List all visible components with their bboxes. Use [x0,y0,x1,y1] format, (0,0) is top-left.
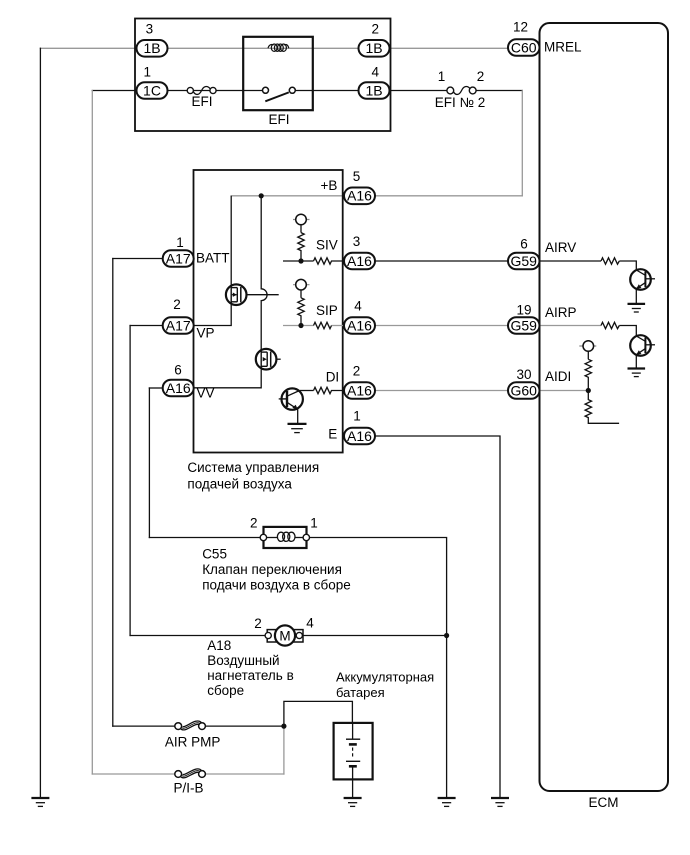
wire C55 row from VV column to valve [149,537,260,539]
wire gray vertical 1C-column down to P/I-B row [91,91,93,775]
svg-text:A17: A17 [166,250,191,266]
resistor DI series [314,387,344,393]
wire battery bottom to ground [352,779,354,798]
svg-text:2: 2 [254,616,262,631]
svg-text:2: 2 [372,22,380,37]
wire Q1 source down to VP row [194,305,232,326]
connector A16 pin 2 DI [344,364,375,399]
wire left vertical from row A down to ground [39,48,41,798]
wire AIRP resistor to transistor Q5 [619,326,636,337]
svg-text:AIDI: AIDI [545,369,571,384]
wire vertical gray from EFI No2 down to +B row [521,91,523,196]
svg-text:1B: 1B [365,82,382,98]
valve C55 box [250,516,318,549]
svg-text:MREL: MREL [544,40,582,55]
wire AIRP inside ECM gray [540,325,602,327]
node SIV junction dot [298,258,303,263]
connector 1B pin 2 [359,22,390,57]
svg-text:2: 2 [173,297,181,312]
svg-text:A16: A16 [166,380,191,396]
relay switch blade [265,92,289,101]
svg-text:DI: DI [326,369,340,384]
wire C55 to right corner down to ground [307,538,447,799]
svg-text:M: M [279,628,290,643]
resistor AIDI lower [585,391,619,424]
svg-text:Клапан переключения: Клапан переключения [202,562,342,577]
resistor SIV series [314,258,344,264]
wire vertical to MOSFET Q2 with hop over Q1 gate [261,196,267,349]
connector A17 pin 2 VP [163,297,194,334]
battery top lead [352,723,354,739]
svg-text:A16: A16 [347,188,372,204]
motor A18 air pump [254,616,314,646]
svg-text:6: 6 [174,363,182,378]
wire VV row into oval [149,387,163,389]
wire +B row gray from A16 pin5 to corner [231,195,522,197]
LONGWIRES [40,48,522,798]
wire Q3 emitter to ground [297,409,299,424]
wire vertical junction down to P/I-B row gray [283,726,285,774]
svg-text:5: 5 [353,169,361,184]
battery cell 2 long plate [346,760,360,762]
connector A17 pin 1 BATT [163,235,194,267]
svg-text:EFI: EFI [191,94,212,109]
svg-text:VV: VV [197,385,215,400]
wire SIP between resistor and oval gray [332,325,344,327]
resistor AIDI upper [585,359,591,390]
svg-text:C60: C60 [511,39,537,55]
transistor Q3 [279,388,303,409]
pullup symbol SIV [293,214,310,232]
connector G59 pin 19 AIRP [508,303,540,334]
fuse P/I-B fusible link [173,771,205,796]
svg-text:Воздушный: Воздушный [207,653,279,668]
connector G59 pin 6 AIRV [508,237,540,270]
svg-text:Аккумуляторная: Аккумуляторная [336,670,434,685]
svg-text:1C: 1C [143,82,161,98]
svg-text:19: 19 [516,303,531,318]
connector 1B pin 4 [359,65,390,99]
ground Q4 [628,304,646,312]
svg-text:2: 2 [477,69,485,84]
motor pin 4 circle [296,632,302,638]
resistor SIV pullup [298,233,304,261]
svg-text:SIV: SIV [316,238,338,253]
relay switch contact left [263,87,269,93]
svg-text:EFI № 2: EFI № 2 [435,95,486,110]
svg-text:EFI: EFI [268,112,289,127]
battery bottom lead [352,766,354,779]
svg-text:A16: A16 [347,317,372,333]
wire motor row left [130,635,265,637]
battery cell 1 long plate [346,738,360,740]
svg-text:A16: A16 [347,382,372,398]
wire DI row gray A16 pin2 to G60 [375,390,509,392]
svg-text:1B: 1B [365,40,382,56]
svg-text:+B: +B [321,178,338,193]
wire SIV row black A16 pin3 to G59 [375,260,509,262]
svg-text:C55: C55 [202,547,227,562]
ECM [540,23,669,810]
fuse EFI No 2 [435,69,486,110]
wire row B after fuse to corner [476,90,522,92]
connector A16 pin 4 SIP [344,299,375,334]
ground battery [344,798,362,806]
connector A16 pin 3 SIV [344,234,375,269]
connector C60 pin 12 MREL [508,20,540,56]
wire VP row into oval [130,325,163,327]
svg-text:AIRV: AIRV [545,240,576,255]
wire SIV row under oval [343,260,375,262]
wire drain vertical to MOSFET Q1 [230,196,232,285]
motor pin 2 circle [265,632,271,638]
wire Q4 emitter to ground [635,289,637,304]
svg-text:1: 1 [353,409,361,424]
node junction dot AIR PMP row [281,724,286,729]
connector 1C pin 1 [137,65,168,99]
svg-text:ECM: ECM [589,795,619,810]
svg-text:батарея: батарея [336,685,385,700]
wire BATT row into oval [113,258,163,260]
JUNCTIONBLOCK [135,19,391,132]
wire BATT vertical black down to AIR PMP row [112,259,114,727]
svg-text:VP: VP [197,325,215,340]
valve C55 pin 2 circle [260,534,266,540]
wire SIP stub gray [283,325,314,327]
valve C55 pin 1 circle [303,534,309,540]
svg-text:4: 4 [372,65,380,80]
wire P/I-B row gray [92,773,176,775]
BOTTOM COMPONENTS [31,516,509,807]
svg-text:G59: G59 [510,253,537,269]
pullup symbol SIP [293,279,310,297]
svg-text:нагнетатель в: нагнетатель в [207,668,294,683]
connector 1B pin 3 [137,22,168,57]
wire Q3 collector to DI resistor [300,390,314,392]
SISTEMA INTERNALS [163,169,375,444]
ground left column [31,798,49,806]
resistor SIP series [314,322,332,328]
connector A16 pin 6 VV [163,363,194,397]
wire E row inside box [343,435,375,437]
resistor SIP pullup [298,298,304,326]
connector A16 pin 1 E [344,409,375,445]
svg-text:E: E [328,427,337,442]
wire riser from AIR PMP junction to battery top [284,701,353,726]
wire E row black A16 pin1 right then down to ground [375,436,501,798]
wire Q2 source down to VV row [194,369,262,388]
resistor AIRV [601,258,619,264]
svg-text:2: 2 [250,516,258,531]
svg-text:P/I-B: P/I-B [173,781,203,796]
fuse AIR PMP fusible link [165,723,221,750]
ground Q3 [288,424,307,433]
svg-text:AIR PMP: AIR PMP [165,735,221,750]
MOSFET Q1 [226,284,279,305]
svg-text:Система управления: Система управления [187,460,319,475]
svg-text:A17: A17 [166,317,191,333]
ground valve column [438,798,456,806]
air supply control system box [194,170,343,453]
node SIP junction dot [298,323,303,328]
wire AIRV resistor to transistor Q4 [619,261,636,270]
MOSFET Q2 [256,349,281,370]
svg-text:1B: 1B [143,40,160,56]
svg-text:G59: G59 [510,317,537,333]
svg-text:подачей воздуха: подачей воздуха [187,477,292,492]
node AIDI junction dot [586,388,591,393]
connector A16 pin 5 +B [344,169,375,204]
battery [334,723,373,780]
svg-text:4: 4 [354,299,362,314]
wire AIR PMP row black [113,725,176,727]
resistor AIRP [601,322,619,328]
wire VV vertical black down to C55 row [148,388,150,538]
svg-text:SIP: SIP [316,303,338,318]
svg-text:12: 12 [513,20,528,35]
wire SIP row gray A16 pin4 to G59 [375,325,509,327]
node junction dot motor row [444,633,449,638]
svg-text:A18: A18 [207,638,231,653]
connector G60 pin 30 AIDI [508,367,540,399]
svg-text:A16: A16 [347,253,372,269]
svg-text:сборе: сборе [207,683,244,698]
wire row B black: 1C to fuse to relay to 1B(4) to EFI No2 fuse [92,90,187,92]
relay switch contact right [289,87,295,93]
node +B junction dot [259,193,264,198]
svg-text:G60: G60 [510,382,537,398]
fuse EFI [187,87,216,109]
svg-text:4: 4 [306,616,314,631]
svg-text:BATT: BATT [196,251,230,266]
pullup symbol AIDI [579,341,596,360]
relay EFI box [243,37,313,110]
svg-text:1: 1 [438,69,446,84]
svg-text:1: 1 [310,516,318,531]
junction block box [135,19,391,132]
svg-text:1: 1 [176,235,184,250]
transistor Q4 [630,269,655,290]
wire AIRV inside ECM [540,260,602,262]
svg-text:3: 3 [353,234,361,249]
wire AIDI inside ECM gray [540,390,589,392]
svg-text:AIRP: AIRP [545,305,577,320]
relay coil [268,44,289,51]
wire Q5 emitter to ground [635,355,637,369]
ground Q5 [628,369,646,377]
ground E column [491,798,509,806]
ECM INTERNALS [508,20,655,424]
wire row A gray: 1B(3) to C60 [40,47,508,49]
battery cell 1 short plate [349,743,357,746]
svg-text:3: 3 [146,22,154,37]
battery dashed link [352,748,354,759]
wire SIV stub [283,260,314,262]
transistor Q5 [630,335,655,356]
valve C55 coil [267,537,277,539]
svg-text:6: 6 [520,237,528,252]
svg-text:30: 30 [516,367,531,382]
svg-text:A16: A16 [347,428,372,444]
SISTEMA BOX [187,170,342,492]
svg-text:подачи воздуха в сборе: подачи воздуха в сборе [202,578,351,593]
wire motor row right to junction [302,635,446,637]
svg-text:1: 1 [144,65,152,80]
battery cell 2 short plate [349,765,357,768]
wire VP vertical black down to motor row [129,326,131,636]
svg-text:2: 2 [353,364,361,379]
